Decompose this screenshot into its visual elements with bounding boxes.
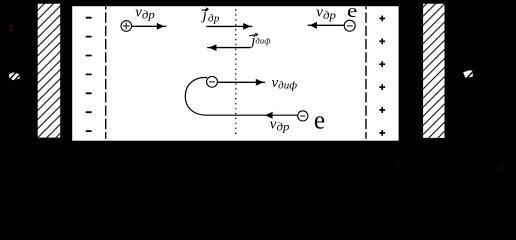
svg-text:e: e [347, 1, 357, 22]
svg-text:vдр: vдр [316, 5, 336, 22]
svg-text:vдр: vдр [270, 116, 290, 133]
svg-text:vдр: vдр [135, 4, 155, 21]
svg-text:e: e [314, 105, 325, 135]
